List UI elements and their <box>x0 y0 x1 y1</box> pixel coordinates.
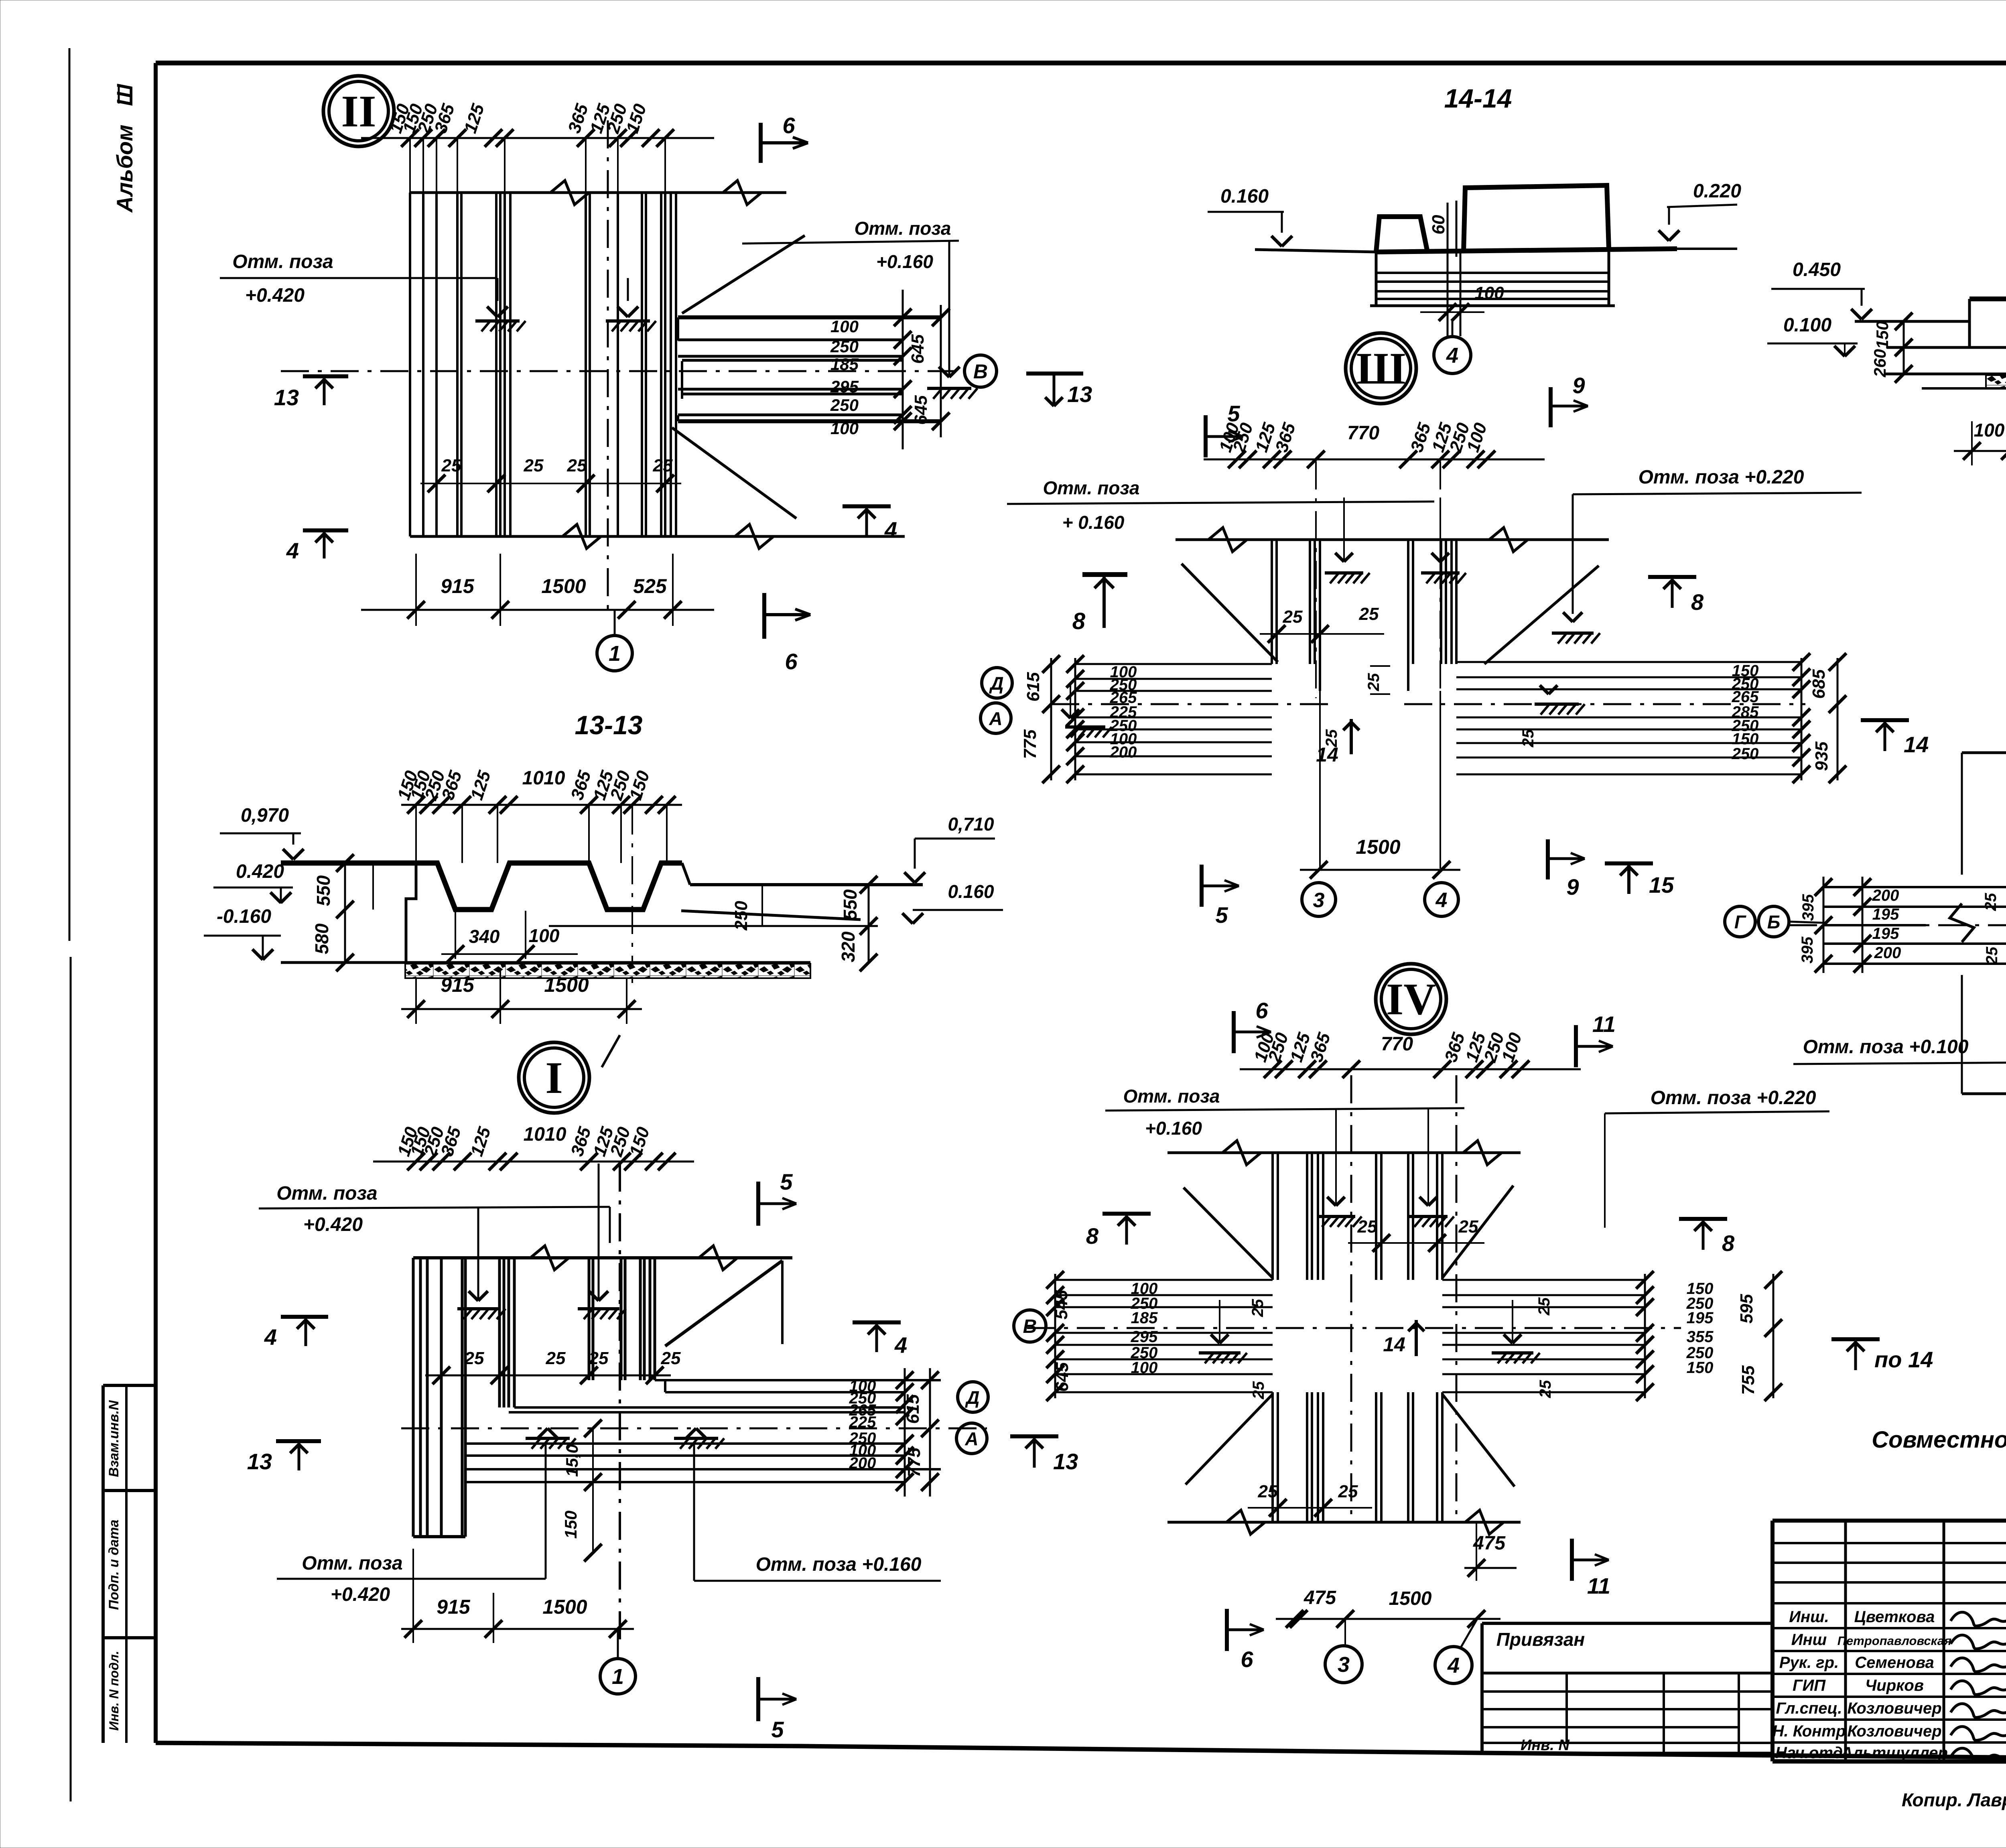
detail III flag 5 top <box>1204 415 1208 457</box>
svg-text:225: 225 <box>849 1413 876 1431</box>
detail I section flag 5 top <box>756 1182 760 1226</box>
detail IV vertical band top and bottom edges <box>1167 1151 1521 1154</box>
svg-text:775: 775 <box>904 1448 924 1477</box>
svg-text:Г: Г <box>1734 912 1746 932</box>
svg-text:100: 100 <box>830 419 859 438</box>
svg-text:25: 25 <box>1982 893 2000 911</box>
detail III flag 8 left <box>1082 572 1127 577</box>
detail II marker circle <box>323 76 394 146</box>
detail III top dimension line <box>1204 459 1545 461</box>
13-13 left vertical dims 550 580 <box>344 863 346 963</box>
detail IV flag 6 top <box>1232 1011 1236 1053</box>
svg-text:25: 25 <box>1249 1299 1267 1317</box>
detail I vertical axis <box>619 1164 621 1641</box>
svg-text:150: 150 <box>1873 321 1892 349</box>
detail I inner U left wall verticals <box>498 1258 501 1407</box>
detail IV corner triangles <box>1184 1188 1273 1278</box>
detail V bottom edge <box>1962 1093 2006 1095</box>
svg-text:915: 915 <box>441 575 475 597</box>
svg-text:935: 935 <box>1812 741 1831 771</box>
svg-text:195: 195 <box>1872 925 1899 942</box>
svg-text:Альтшуллер: Альтшуллер <box>1841 1744 1948 1762</box>
svg-text:Отм. поза: Отм. поза <box>1043 477 1140 498</box>
svg-text:1500: 1500 <box>544 974 589 996</box>
svg-text:580: 580 <box>311 923 332 954</box>
svg-text:25: 25 <box>441 456 461 475</box>
svg-text:Чирков: Чирков <box>1865 1677 1924 1694</box>
title block name rows <box>1773 1602 2006 1604</box>
flag po 14 right <box>1831 1337 1880 1341</box>
svg-text:25: 25 <box>1250 1381 1267 1399</box>
svg-text:+0.160: +0.160 <box>876 251 933 272</box>
svg-text:615: 615 <box>1023 672 1043 702</box>
svg-text:4: 4 <box>894 1332 907 1358</box>
svg-text:100: 100 <box>1474 283 1504 303</box>
15-15 bottom slab and gravel <box>1886 373 2006 376</box>
detail II top edge <box>410 191 786 194</box>
svg-text:Подп. и дата: Подп. и дата <box>106 1519 122 1610</box>
axis circle 4 under 14-14 <box>1434 337 1471 374</box>
svg-text:1500: 1500 <box>542 1596 587 1618</box>
title block left table verticals <box>1844 1521 1847 1761</box>
svg-text:Б: Б <box>1767 912 1781 932</box>
detail V top edge <box>1962 751 2006 754</box>
svg-text:Инв. N подл.: Инв. N подл. <box>107 1651 121 1730</box>
svg-text:8: 8 <box>1086 1223 1099 1249</box>
detail III flag 9 top <box>1549 387 1553 427</box>
svg-text:Козловичер: Козловичер <box>1847 1722 1941 1740</box>
detail IV marker circle <box>1376 964 1446 1034</box>
svg-text:25: 25 <box>1537 1380 1554 1398</box>
detail I section flag 5 bottom <box>756 1677 760 1721</box>
svg-text:14: 14 <box>1904 732 1929 757</box>
detail I L-wall verticals <box>412 1258 415 1537</box>
detail II wall axis dash-dot <box>607 120 609 610</box>
detail III arm hatch right <box>1535 703 1579 706</box>
detail I top edge <box>413 1256 792 1259</box>
detail II top dimension line <box>361 137 714 139</box>
13-13 bottom dim line 915 1500 <box>401 1008 642 1010</box>
svg-text:8: 8 <box>1072 608 1086 634</box>
svg-text:200: 200 <box>1110 743 1137 761</box>
svg-text:3: 3 <box>1313 889 1325 912</box>
svg-text:6: 6 <box>1255 998 1268 1023</box>
svg-text:11: 11 <box>1592 1011 1616 1037</box>
svg-text:Альбом: Альбом <box>112 125 137 213</box>
svg-text:4: 4 <box>264 1324 277 1350</box>
svg-text:200: 200 <box>849 1454 876 1472</box>
svg-text:100: 100 <box>1974 420 2005 441</box>
svg-text:+ 0.160: + 0.160 <box>1062 512 1125 533</box>
detail IV vertical band lines <box>1271 1153 1274 1280</box>
svg-text:550: 550 <box>313 875 334 906</box>
svg-text:355: 355 <box>1687 1328 1714 1346</box>
13-13 right vertical dims 550 320 250 <box>868 885 870 963</box>
detail III left break triangle <box>1182 564 1278 662</box>
svg-text:Отм. поза: Отм. поза <box>302 1553 402 1574</box>
detail I right vertical dim lines <box>904 1368 906 1497</box>
section flag 6 top right of II <box>759 123 763 163</box>
svg-text:755: 755 <box>1738 1365 1758 1395</box>
14-14 raised blocks <box>1376 217 1427 252</box>
svg-text:6: 6 <box>1241 1647 1253 1672</box>
axis circles 3 4 detail IV <box>1325 1646 1362 1683</box>
svg-text:6: 6 <box>785 649 798 674</box>
svg-text:Отм. поза +0.100: Отм. поза +0.100 <box>1803 1036 1969 1058</box>
svg-text:Отм. поза: Отм. поза <box>276 1183 377 1204</box>
svg-text:250: 250 <box>731 901 751 931</box>
svg-text:В: В <box>1023 1316 1037 1337</box>
svg-text:770: 770 <box>1381 1034 1413 1055</box>
svg-text:0,710: 0,710 <box>948 814 994 835</box>
detail I top dimension line <box>373 1161 694 1163</box>
detail III central channel walls <box>1271 540 1273 664</box>
svg-text:0.160: 0.160 <box>1220 186 1269 207</box>
detail I marker circle <box>519 1042 589 1113</box>
svg-text:Копир. Лаврухина: Копир. Лаврухина <box>1902 1789 2006 1810</box>
detail I bottom dim line <box>401 1628 634 1630</box>
detail I left wall bottom <box>413 1535 465 1538</box>
detail II wall section verticals <box>409 193 411 536</box>
svg-text:1010: 1010 <box>522 768 565 789</box>
svg-text:Отм. поза: Отм. поза <box>1123 1086 1220 1107</box>
section mark 4 left <box>303 528 348 532</box>
svg-text:0.420: 0.420 <box>236 861 284 882</box>
svg-text:Козловичер: Козловичер <box>1847 1700 1941 1717</box>
svg-text:Н. Контр: Н. Контр <box>1773 1722 1846 1740</box>
svg-text:Семенова: Семенова <box>1855 1654 1934 1671</box>
svg-text:195: 195 <box>1872 906 1899 923</box>
svg-text:525: 525 <box>633 575 667 597</box>
svg-text:1500: 1500 <box>1389 1588 1432 1609</box>
detail II bottom edge <box>410 535 905 538</box>
svg-text:25: 25 <box>1519 729 1537 747</box>
svg-text:645: 645 <box>911 395 931 425</box>
svg-text:8: 8 <box>1691 589 1704 615</box>
13-13 left step <box>406 863 416 963</box>
svg-text:615: 615 <box>903 1394 923 1424</box>
svg-text:5: 5 <box>1227 401 1240 426</box>
svg-text:9: 9 <box>1572 373 1585 398</box>
svg-text:Отм. поза: Отм. поза <box>232 251 333 272</box>
svg-text:250: 250 <box>1732 745 1759 763</box>
svg-text:550: 550 <box>840 889 861 920</box>
svg-text:Отм. поза +0.220: Отм. поза +0.220 <box>1651 1087 1816 1109</box>
svg-text:775: 775 <box>1020 729 1040 759</box>
axis circle 1 detail I <box>600 1659 636 1694</box>
svg-text:770: 770 <box>1347 422 1379 444</box>
svg-text:Д: Д <box>989 673 1003 694</box>
svg-text:4: 4 <box>1435 889 1448 912</box>
detail III channel axes <box>1315 461 1317 698</box>
axis circle 1 of detail II <box>597 636 632 671</box>
detail V beam axis <box>1789 924 2006 926</box>
svg-text:0.220: 0.220 <box>1693 181 1741 202</box>
detail IV flag 13 bottom left <box>1010 1434 1058 1438</box>
svg-text:25: 25 <box>1338 1482 1358 1501</box>
15-15 left terrace <box>1855 320 1969 323</box>
title block outer box <box>1773 1519 2006 1523</box>
detail IV bottom dims <box>1276 1618 1500 1620</box>
13-13 floor profile with channels <box>281 863 682 910</box>
axis tick 1 slash <box>602 1035 620 1067</box>
detail II hatch on second wall <box>627 278 629 301</box>
svg-text:100: 100 <box>830 317 859 336</box>
svg-text:Ш: Ш <box>1356 344 1406 394</box>
svg-text:25: 25 <box>546 1348 566 1368</box>
svg-text:25: 25 <box>524 456 544 475</box>
axis circles D A detail III <box>982 668 1012 698</box>
detail IV hatches side arms <box>1199 1351 1241 1355</box>
svg-text:100: 100 <box>529 925 560 946</box>
detail II beam horizontal lines <box>678 315 941 319</box>
svg-text:1500: 1500 <box>1356 836 1400 858</box>
detail II right vertical dim line <box>902 290 904 449</box>
axis circle V (letter B) <box>964 355 997 387</box>
section flag 6 bottom right of II <box>762 593 766 639</box>
svg-text:+0.420: +0.420 <box>245 285 305 306</box>
section flag 13 right <box>1026 372 1083 376</box>
detail III left vertical dims <box>1050 658 1052 780</box>
detail IV horizontal arm rows left <box>1055 1279 1273 1281</box>
detail I horizontal axis <box>401 1428 987 1430</box>
detail IV horizontal arm rows right <box>1442 1279 1645 1281</box>
detail III flag 5 bottom <box>1200 865 1204 907</box>
svg-text:25: 25 <box>1359 604 1379 624</box>
svg-text:9: 9 <box>1566 874 1579 900</box>
14-14 slab layers below <box>1375 252 1378 305</box>
svg-text:150: 150 <box>561 1511 580 1539</box>
section mark 13 left <box>303 374 348 378</box>
svg-text:Гл.спец.: Гл.спец. <box>1776 1700 1842 1717</box>
svg-text:Петропавловская: Петропавловская <box>1837 1634 1951 1648</box>
svg-text:Инш.: Инш. <box>1789 1608 1829 1626</box>
svg-text:4: 4 <box>1447 1653 1460 1677</box>
detail I break triangle top right <box>665 1261 782 1346</box>
svg-text:545: 545 <box>1052 1290 1071 1320</box>
paper edge trim lines <box>69 48 71 941</box>
svg-text:-0.160: -0.160 <box>217 906 271 927</box>
detail IV right vertical dims <box>1644 1274 1646 1398</box>
svg-text:200: 200 <box>1874 944 1901 962</box>
svg-text:В: В <box>973 360 988 383</box>
detail IV flag 8 right <box>1679 1217 1727 1221</box>
svg-text:13: 13 <box>1067 382 1092 407</box>
detail III flag 9 bottom <box>1546 839 1550 879</box>
svg-text:1500: 1500 <box>541 575 586 597</box>
svg-text:645: 645 <box>908 334 928 364</box>
axis circles G B <box>1725 906 1755 937</box>
detail III left arm rows <box>1075 663 1272 665</box>
13-13 extension verticals <box>415 805 417 863</box>
svg-text:25: 25 <box>661 1348 681 1368</box>
svg-text:185: 185 <box>1131 1309 1158 1327</box>
svg-text:11: 11 <box>1587 1573 1610 1598</box>
title block upper thin rows <box>1773 1542 2006 1544</box>
detail V beam left dims 395 <box>1823 877 1825 973</box>
svg-text:4: 4 <box>1446 343 1458 368</box>
svg-text:260: 260 <box>1870 349 1889 378</box>
detail IV vertical axes dashdot <box>1350 1075 1352 1522</box>
svg-text:3: 3 <box>1338 1653 1350 1677</box>
svg-text:5: 5 <box>780 1169 793 1194</box>
svg-text:Инв. N ⁻: Инв. N ⁻ <box>1521 1737 1583 1754</box>
svg-text:II: II <box>341 87 376 136</box>
svg-text:6: 6 <box>782 113 795 138</box>
detail IV flag 8 left <box>1102 1212 1151 1216</box>
svg-text:200: 200 <box>1872 887 1899 904</box>
svg-text:685: 685 <box>1809 669 1829 699</box>
detail V outer boundary verticals <box>1961 753 1963 875</box>
detail I inner corner and band horizontals <box>655 1379 941 1381</box>
detail I section flags left 4 and 13 <box>281 1315 328 1319</box>
13-13 right beam <box>682 863 690 885</box>
detail I hatches with arrows <box>477 1207 479 1300</box>
detail II beam left end detail <box>677 317 679 341</box>
detail IV flag 11 bottom <box>1570 1539 1574 1581</box>
svg-text:340: 340 <box>469 926 500 947</box>
svg-text:295: 295 <box>1131 1328 1158 1346</box>
axis circles 3 4 detail III <box>1302 883 1336 916</box>
svg-text:по 14: по 14 <box>1874 1347 1933 1372</box>
14-14 central joint verticals <box>1447 203 1449 336</box>
detail III top edge <box>1176 538 1609 541</box>
svg-text:Совместно с данным см. л.л: Совместно с данным см. л.л. КЖ-5,8 <box>1872 1427 2006 1453</box>
detail II break triangle bottom <box>672 428 796 518</box>
svg-text:295: 295 <box>830 377 859 396</box>
drawing frame border <box>156 61 2006 65</box>
svg-text:0.100: 0.100 <box>1783 315 1831 336</box>
svg-text:25: 25 <box>464 1348 484 1368</box>
svg-text:15,0: 15,0 <box>562 1444 581 1477</box>
svg-text:14-14: 14-14 <box>1444 83 1512 113</box>
15-15 left vertical dims <box>1903 321 1905 374</box>
svg-text:Привязан: Привязан <box>1496 1629 1585 1650</box>
svg-text:320: 320 <box>838 931 859 962</box>
detail IV hatches top channel <box>1335 1108 1337 1204</box>
svg-text:915: 915 <box>441 974 475 996</box>
svg-text:60: 60 <box>1429 215 1448 234</box>
svg-text:645: 645 <box>1052 1362 1072 1392</box>
detail III right arm rows <box>1456 661 1801 663</box>
svg-text:Цветкова: Цветкова <box>1854 1608 1935 1626</box>
svg-text:25: 25 <box>653 456 673 475</box>
svg-text:Д: Д <box>964 1387 979 1408</box>
svg-text:0,970: 0,970 <box>241 805 289 826</box>
detail II beam centerline axis <box>281 370 964 372</box>
detail III marker circle <box>1346 333 1416 404</box>
svg-text:13: 13 <box>274 385 299 410</box>
svg-text:25: 25 <box>1258 1482 1278 1501</box>
svg-text:25: 25 <box>1357 1217 1377 1237</box>
svg-text:1: 1 <box>612 1665 624 1689</box>
detail II beam to the right - break triangle top <box>682 236 805 313</box>
svg-text:595: 595 <box>1737 1294 1756 1324</box>
svg-text:25: 25 <box>1283 607 1303 627</box>
svg-text:250: 250 <box>830 337 859 356</box>
detail V left beam rows <box>1823 886 2006 888</box>
svg-text:+0.160: +0.160 <box>1145 1118 1202 1139</box>
detail III arm hatch left <box>1065 725 1105 729</box>
axis circles D A <box>958 1382 988 1412</box>
svg-text:250: 250 <box>830 396 859 414</box>
svg-text:А: А <box>989 708 1002 729</box>
detail IV flag 6 bottom <box>1225 1609 1229 1651</box>
detail III right vertical dims <box>1801 658 1803 780</box>
svg-text:150: 150 <box>1687 1359 1714 1377</box>
sidebar stamp boxes <box>103 1384 156 1387</box>
svg-text:195: 195 <box>1687 1309 1714 1327</box>
svg-text:IV: IV <box>1386 975 1436 1024</box>
svg-text:Рук. гр.: Рук. гр. <box>1779 1654 1839 1671</box>
svg-text:4: 4 <box>884 517 897 542</box>
detail III bottom verticals and axes <box>1319 691 1321 869</box>
svg-text:Ш: Ш <box>112 83 137 106</box>
svg-text:25: 25 <box>1535 1297 1553 1316</box>
svg-text:25: 25 <box>589 1348 609 1368</box>
svg-text:185: 185 <box>830 355 859 374</box>
svg-text:100: 100 <box>1131 1359 1158 1377</box>
detail IV flag 11 top <box>1574 1025 1578 1067</box>
detail II bottom dim line <box>361 609 714 611</box>
detail I section flag 4 right <box>853 1320 901 1324</box>
svg-text:8: 8 <box>1722 1231 1735 1256</box>
section flag 4 lower middle <box>843 504 891 508</box>
svg-text:Инш: Инш <box>1791 1631 1827 1649</box>
14-14 baseline <box>1255 250 1376 252</box>
svg-text:395: 395 <box>1799 936 1816 963</box>
svg-text:0.450: 0.450 <box>1793 259 1841 280</box>
privyazan stamp table <box>1482 1622 1773 1625</box>
svg-text:475: 475 <box>1303 1587 1336 1608</box>
svg-text:13-13: 13-13 <box>575 710 643 740</box>
15-15 mid slab left of pedestal <box>1969 296 2006 301</box>
svg-text:+0.420: +0.420 <box>303 1214 363 1235</box>
detail III hatches inside channel <box>1343 498 1345 560</box>
svg-text:13: 13 <box>247 1449 272 1474</box>
svg-text:14: 14 <box>1383 1333 1405 1356</box>
svg-text:Отм. поза: Отм. поза <box>855 218 951 239</box>
svg-text:13: 13 <box>1053 1449 1078 1474</box>
svg-text:25: 25 <box>1458 1217 1478 1237</box>
svg-text:ГИП: ГИП <box>1793 1677 1826 1694</box>
svg-text:+0.420: +0.420 <box>331 1584 390 1605</box>
svg-text:4: 4 <box>286 538 299 563</box>
svg-text:Взам.инв.N: Взам.инв.N <box>106 1400 122 1477</box>
13-13 top dimension line <box>401 804 682 806</box>
detail II extension verticals from dim line <box>409 138 411 193</box>
svg-text:5: 5 <box>1215 902 1228 928</box>
13-13 bottom slab and gravel bed <box>281 961 810 964</box>
detail I inner U right wall verticals <box>588 1258 591 1380</box>
svg-text:915: 915 <box>437 1596 471 1618</box>
svg-text:475: 475 <box>1473 1533 1506 1554</box>
svg-text:Отм. поза +0.220: Отм. поза +0.220 <box>1639 467 1804 488</box>
svg-text:25: 25 <box>567 456 587 475</box>
detail IV left vertical dims <box>1054 1274 1056 1398</box>
svg-text:1010: 1010 <box>524 1124 566 1145</box>
svg-text:1: 1 <box>609 642 621 666</box>
svg-text:15: 15 <box>1649 872 1674 898</box>
detail III flag 8 right <box>1648 575 1696 579</box>
svg-text:0.160: 0.160 <box>948 881 994 902</box>
detail III right break triangle <box>1484 566 1599 664</box>
svg-text:395: 395 <box>1799 894 1817 921</box>
svg-text:5: 5 <box>771 1717 784 1742</box>
svg-text:Отм. поза +0.160: Отм. поза +0.160 <box>756 1554 922 1575</box>
svg-text:I: I <box>545 1053 563 1103</box>
svg-text:А: А <box>964 1428 978 1449</box>
